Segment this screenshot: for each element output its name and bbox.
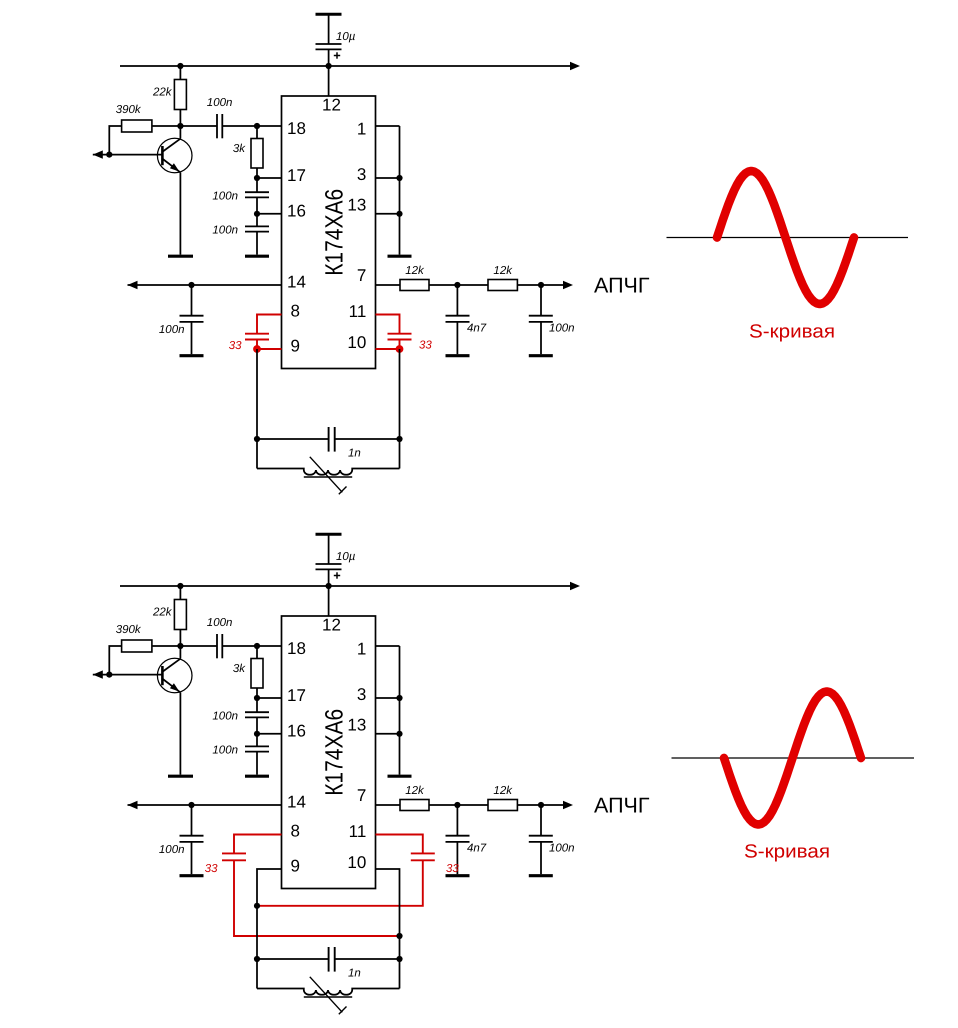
svg-text:9: 9 <box>291 337 300 356</box>
pin 16 a <box>287 202 306 221</box>
wire pin14 rail b <box>128 804 282 806</box>
svg-text:10: 10 <box>347 333 366 352</box>
svg-text:100n: 100n <box>207 617 233 629</box>
node pin3 junction b <box>396 695 402 701</box>
label C8a value 33 <box>229 340 242 352</box>
label C10a value 1n <box>348 448 361 460</box>
svg-text:14: 14 <box>287 273 306 292</box>
label R4b value 12k <box>405 785 425 797</box>
pin 14 b <box>287 793 306 812</box>
svg-text:12k: 12k <box>493 785 513 797</box>
label C2b value 100n <box>207 617 233 629</box>
node rail-22k a <box>177 63 183 69</box>
resistor R4b 12k <box>400 800 429 811</box>
svg-text:10µ: 10µ <box>336 31 356 43</box>
node pin3 junction a <box>396 175 402 181</box>
capacitor C6a 4n7 <box>446 285 470 354</box>
label R2a value 390k <box>116 104 142 116</box>
svg-text:4n7: 4n7 <box>467 843 487 855</box>
svg-text:14: 14 <box>287 793 306 812</box>
label C3b value 100n <box>212 711 238 723</box>
label output APChG a <box>594 274 650 298</box>
node red-right junction b <box>396 933 402 939</box>
wire pin16 a <box>257 213 282 215</box>
pin 13 b <box>347 716 366 735</box>
label C1b value 10µ <box>336 551 356 563</box>
pin 17 b <box>287 686 306 705</box>
svg-text:16: 16 <box>287 202 306 221</box>
svg-text:100n: 100n <box>212 711 238 723</box>
label C6b value 4n7 <box>467 843 487 855</box>
node pin16 junction a <box>254 211 260 217</box>
node rail-C1 b <box>326 583 332 589</box>
svg-text:8: 8 <box>291 822 300 841</box>
svg-text:3: 3 <box>357 165 366 184</box>
capacitor C6b 4n7 <box>446 805 470 874</box>
svg-text:100n: 100n <box>159 324 185 336</box>
pin 12 a <box>322 96 341 115</box>
label R3a value 3k <box>233 143 246 155</box>
svg-text:7: 7 <box>357 786 366 805</box>
resistor R3a 3k <box>251 126 263 178</box>
label C5b value 100n <box>159 844 185 856</box>
output arrow a <box>563 281 573 289</box>
wire tank left a <box>256 349 258 469</box>
node collector junction a <box>177 123 183 129</box>
svg-text:17: 17 <box>287 686 306 705</box>
ground pins b <box>388 775 412 778</box>
pin 7 b <box>357 786 366 805</box>
plus mark C1b <box>334 572 340 578</box>
label C4b value 100n <box>212 745 238 757</box>
inductor L1b variable <box>257 977 400 1014</box>
svg-text:33: 33 <box>446 863 459 875</box>
label C7a value 100n <box>549 323 575 335</box>
svg-text:3: 3 <box>357 685 366 704</box>
transistor Q1b <box>157 646 192 775</box>
svg-text:13: 13 <box>347 196 366 215</box>
svg-text:10: 10 <box>347 853 366 872</box>
svg-text:4n7: 4n7 <box>467 323 487 335</box>
node collector junction b <box>177 643 183 649</box>
svg-text:3k: 3k <box>233 663 246 675</box>
wire pin13 b <box>376 733 400 735</box>
svg-text:18: 18 <box>287 119 306 138</box>
label R1a value 22k <box>152 87 173 99</box>
input arrow left b <box>93 670 110 678</box>
wire pin17 b <box>257 697 282 699</box>
capacitor C8a 33 red <box>245 315 282 350</box>
capacitor C5a 100n <box>180 285 204 354</box>
node C6 junction b <box>454 802 460 808</box>
svg-text:11: 11 <box>349 302 367 321</box>
ground C6 a <box>446 354 470 357</box>
capacitor C2b 100n series <box>180 634 257 658</box>
wire pin17 a <box>257 177 282 179</box>
label C4a value 100n <box>212 225 238 237</box>
ground emitter a <box>168 255 193 258</box>
svg-text:9: 9 <box>291 857 300 876</box>
svg-text:АПЧГ: АПЧГ <box>594 794 650 818</box>
output arrow b <box>563 801 573 809</box>
wire tank right a <box>399 349 401 469</box>
node C7 junction a <box>538 282 544 288</box>
ground pins a <box>388 255 412 258</box>
wire pin13 a <box>376 213 400 215</box>
label C8b value 33 <box>205 863 218 875</box>
svg-text:16: 16 <box>287 722 306 741</box>
svg-text:12: 12 <box>322 96 341 115</box>
resistor R4a 12k <box>400 280 429 291</box>
svg-text:К174ХА6: К174ХА6 <box>320 709 348 796</box>
pin 18 a <box>287 119 306 138</box>
wire R4-R5 a <box>429 284 488 286</box>
label output APChG b <box>594 794 650 818</box>
op-amp U1b K174XA6 body <box>282 616 376 889</box>
label S-curve b <box>744 842 830 863</box>
ground C4 a <box>245 255 269 258</box>
node tank left b <box>254 956 260 962</box>
wire pins 1-3-13 vertical a <box>399 126 401 255</box>
wire R5-out a <box>517 284 565 286</box>
label C6a value 4n7 <box>467 323 487 335</box>
S-curve trace a <box>717 171 854 304</box>
ground C6 b <box>446 874 470 877</box>
plus mark C1a <box>334 52 340 58</box>
wire base a <box>109 154 162 156</box>
svg-text:К174ХА6: К174ХА6 <box>320 189 348 276</box>
node pin17 junction a <box>254 175 260 181</box>
pin14 arrow b <box>128 801 138 809</box>
capacitor C3a 100n <box>245 178 269 214</box>
label S-curve a <box>749 322 835 343</box>
node pin18 junction b <box>254 643 260 649</box>
wire pin9 tank left b <box>257 869 282 989</box>
resistor R5a 12k <box>488 280 517 291</box>
pin 12 b <box>322 616 341 635</box>
node pin13 junction a <box>396 211 402 217</box>
node pin16 junction b <box>254 731 260 737</box>
resistor R1b 22k <box>174 586 186 646</box>
label R2b value 390k <box>116 624 142 636</box>
capacitor C4a 100n <box>245 214 269 255</box>
svg-text:S-кривая: S-кривая <box>749 322 835 343</box>
pin 10 a <box>347 333 366 352</box>
capacitor C10b 1n <box>257 947 400 972</box>
ground C5 b <box>180 874 204 877</box>
pin 9 a <box>291 337 300 356</box>
pin 7 a <box>357 266 366 285</box>
svg-text:18: 18 <box>287 639 306 658</box>
resistor R2b 390k <box>109 640 180 675</box>
capacitor C9b 33 red crossed <box>257 835 435 906</box>
svg-text:3k: 3k <box>233 143 246 155</box>
svg-text:13: 13 <box>347 716 366 735</box>
ground C7 b <box>529 874 553 877</box>
node C5 junction a <box>188 282 194 288</box>
svg-text:100n: 100n <box>549 323 575 335</box>
pin 11 a <box>349 302 367 321</box>
pin 9 b <box>291 857 300 876</box>
svg-text:8: 8 <box>291 302 300 321</box>
pin 8 b <box>291 822 300 841</box>
resistor R5b 12k <box>488 800 517 811</box>
resistor R1a 22k <box>174 66 186 126</box>
power rail arrow b <box>570 582 580 590</box>
pin 13 a <box>347 196 366 215</box>
svg-text:390k: 390k <box>116 624 142 636</box>
pin 17 a <box>287 166 306 185</box>
resistor R3b 3k <box>251 646 263 698</box>
wire R5-out b <box>517 804 565 806</box>
op-amp U1a K174XA6 body <box>282 96 376 369</box>
node C5 junction b <box>188 802 194 808</box>
svg-text:100n: 100n <box>212 745 238 757</box>
label C1a value 10µ <box>336 31 356 43</box>
capacitor C1a 10µ electrolytic <box>316 14 342 66</box>
capacitor C7a 100n <box>529 285 553 354</box>
svg-text:10µ: 10µ <box>336 551 356 563</box>
wire pin7 b <box>376 804 401 806</box>
wire pin7 a <box>376 284 401 286</box>
label C5a value 100n <box>159 324 185 336</box>
resistor R2a 390k <box>109 120 180 155</box>
svg-text:1: 1 <box>357 120 366 139</box>
capacitor C10a 1n <box>257 427 400 452</box>
svg-text:22k: 22k <box>152 87 173 99</box>
node pin13 junction b <box>396 731 402 737</box>
node pin9 red a <box>253 345 261 353</box>
inductor L1a variable <box>257 457 400 494</box>
label R1b value 22k <box>152 607 173 619</box>
label C10b value 1n <box>348 968 361 980</box>
label C9b value 33 <box>446 863 459 875</box>
ground C7 a <box>529 354 553 357</box>
ground C5 a <box>180 354 204 357</box>
capacitor C8b 33 red crossed <box>222 835 400 937</box>
pin 1 a <box>357 120 366 139</box>
capacitor C9a 33 red <box>376 315 412 350</box>
svg-text:33: 33 <box>229 340 242 352</box>
S-curve axis a <box>667 237 909 239</box>
wire pin3 b <box>376 697 400 699</box>
svg-text:33: 33 <box>205 863 218 875</box>
svg-text:22k: 22k <box>152 607 173 619</box>
svg-text:390k: 390k <box>116 104 142 116</box>
wire R4-R5 b <box>429 804 488 806</box>
svg-text:12k: 12k <box>493 265 513 277</box>
svg-text:100n: 100n <box>207 97 233 109</box>
svg-text:12k: 12k <box>405 265 425 277</box>
node pin17 junction b <box>254 695 260 701</box>
capacitor C3b 100n <box>245 698 269 734</box>
label U1b name K174XA6 <box>320 709 348 796</box>
node base junction a <box>106 152 112 158</box>
input arrow left a <box>93 150 110 158</box>
pin14 arrow a <box>128 281 138 289</box>
pin 16 b <box>287 722 306 741</box>
svg-text:12: 12 <box>322 616 341 635</box>
wire pin12 b <box>328 586 330 616</box>
svg-text:1: 1 <box>357 640 366 659</box>
label C3a value 100n <box>212 191 238 203</box>
S-curve axis b <box>672 757 915 759</box>
wire pin18 a <box>257 125 282 127</box>
ground emitter b <box>168 775 193 778</box>
pin 1 b <box>357 640 366 659</box>
svg-text:S-кривая: S-кривая <box>744 842 830 863</box>
wire pin14 rail a <box>128 284 282 286</box>
wire V+ rail b <box>120 585 570 587</box>
wire pin16 b <box>257 733 282 735</box>
label U1a name K174XA6 <box>320 189 348 276</box>
svg-text:1n: 1n <box>348 968 361 980</box>
node pin18 junction a <box>254 123 260 129</box>
wire V+ rail a <box>120 65 570 67</box>
S-curve trace b <box>724 692 861 825</box>
capacitor C5b 100n <box>180 805 204 874</box>
node rail-C1 a <box>326 63 332 69</box>
wire pin3 a <box>376 177 400 179</box>
node base junction b <box>106 672 112 678</box>
wire base b <box>109 674 162 676</box>
node tank right b <box>396 956 402 962</box>
transistor Q1a <box>157 126 192 255</box>
svg-text:100n: 100n <box>549 843 575 855</box>
svg-text:11: 11 <box>349 822 367 841</box>
node rail-22k b <box>177 583 183 589</box>
pin 10 b <box>347 853 366 872</box>
capacitor C1b 10µ electrolytic <box>316 534 342 586</box>
capacitor C4b 100n <box>245 734 269 775</box>
svg-text:12k: 12k <box>405 785 425 797</box>
node C7 junction b <box>538 802 544 808</box>
wire pin12 a <box>328 66 330 96</box>
power rail arrow a <box>570 62 580 70</box>
svg-text:17: 17 <box>287 166 306 185</box>
capacitor C2a 100n series <box>180 114 257 138</box>
label C7b value 100n <box>549 843 575 855</box>
wire pin1 a <box>376 125 400 127</box>
wire pins 1-3-13 vertical b <box>399 646 401 775</box>
node tank right a <box>396 436 402 442</box>
svg-text:7: 7 <box>357 266 366 285</box>
pin 8 a <box>291 302 300 321</box>
pin 18 b <box>287 639 306 658</box>
label C9a value 33 <box>419 340 432 352</box>
pin 3 a <box>357 165 366 184</box>
label R3b value 3k <box>233 663 246 675</box>
node tank left a <box>254 436 260 442</box>
capacitor C7b 100n <box>529 805 553 874</box>
node C6 junction a <box>454 282 460 288</box>
label R4a value 12k <box>405 265 425 277</box>
pin 11 b <box>349 822 367 841</box>
label C2a value 100n <box>207 97 233 109</box>
svg-text:33: 33 <box>419 340 432 352</box>
svg-text:100n: 100n <box>159 844 185 856</box>
node red-left junction b <box>254 903 260 909</box>
node pin10 red a <box>396 345 404 353</box>
svg-text:АПЧГ: АПЧГ <box>594 274 650 298</box>
wire pin10 tank right b <box>376 869 400 989</box>
label R5a value 12k <box>493 265 513 277</box>
svg-text:100n: 100n <box>212 191 238 203</box>
pin 14 a <box>287 273 306 292</box>
wire pin1 b <box>376 645 400 647</box>
svg-text:1n: 1n <box>348 448 361 460</box>
pin 3 b <box>357 685 366 704</box>
label R5b value 12k <box>493 785 513 797</box>
wire pin18 b <box>257 645 282 647</box>
svg-text:100n: 100n <box>212 225 238 237</box>
ground C4 b <box>245 775 269 778</box>
